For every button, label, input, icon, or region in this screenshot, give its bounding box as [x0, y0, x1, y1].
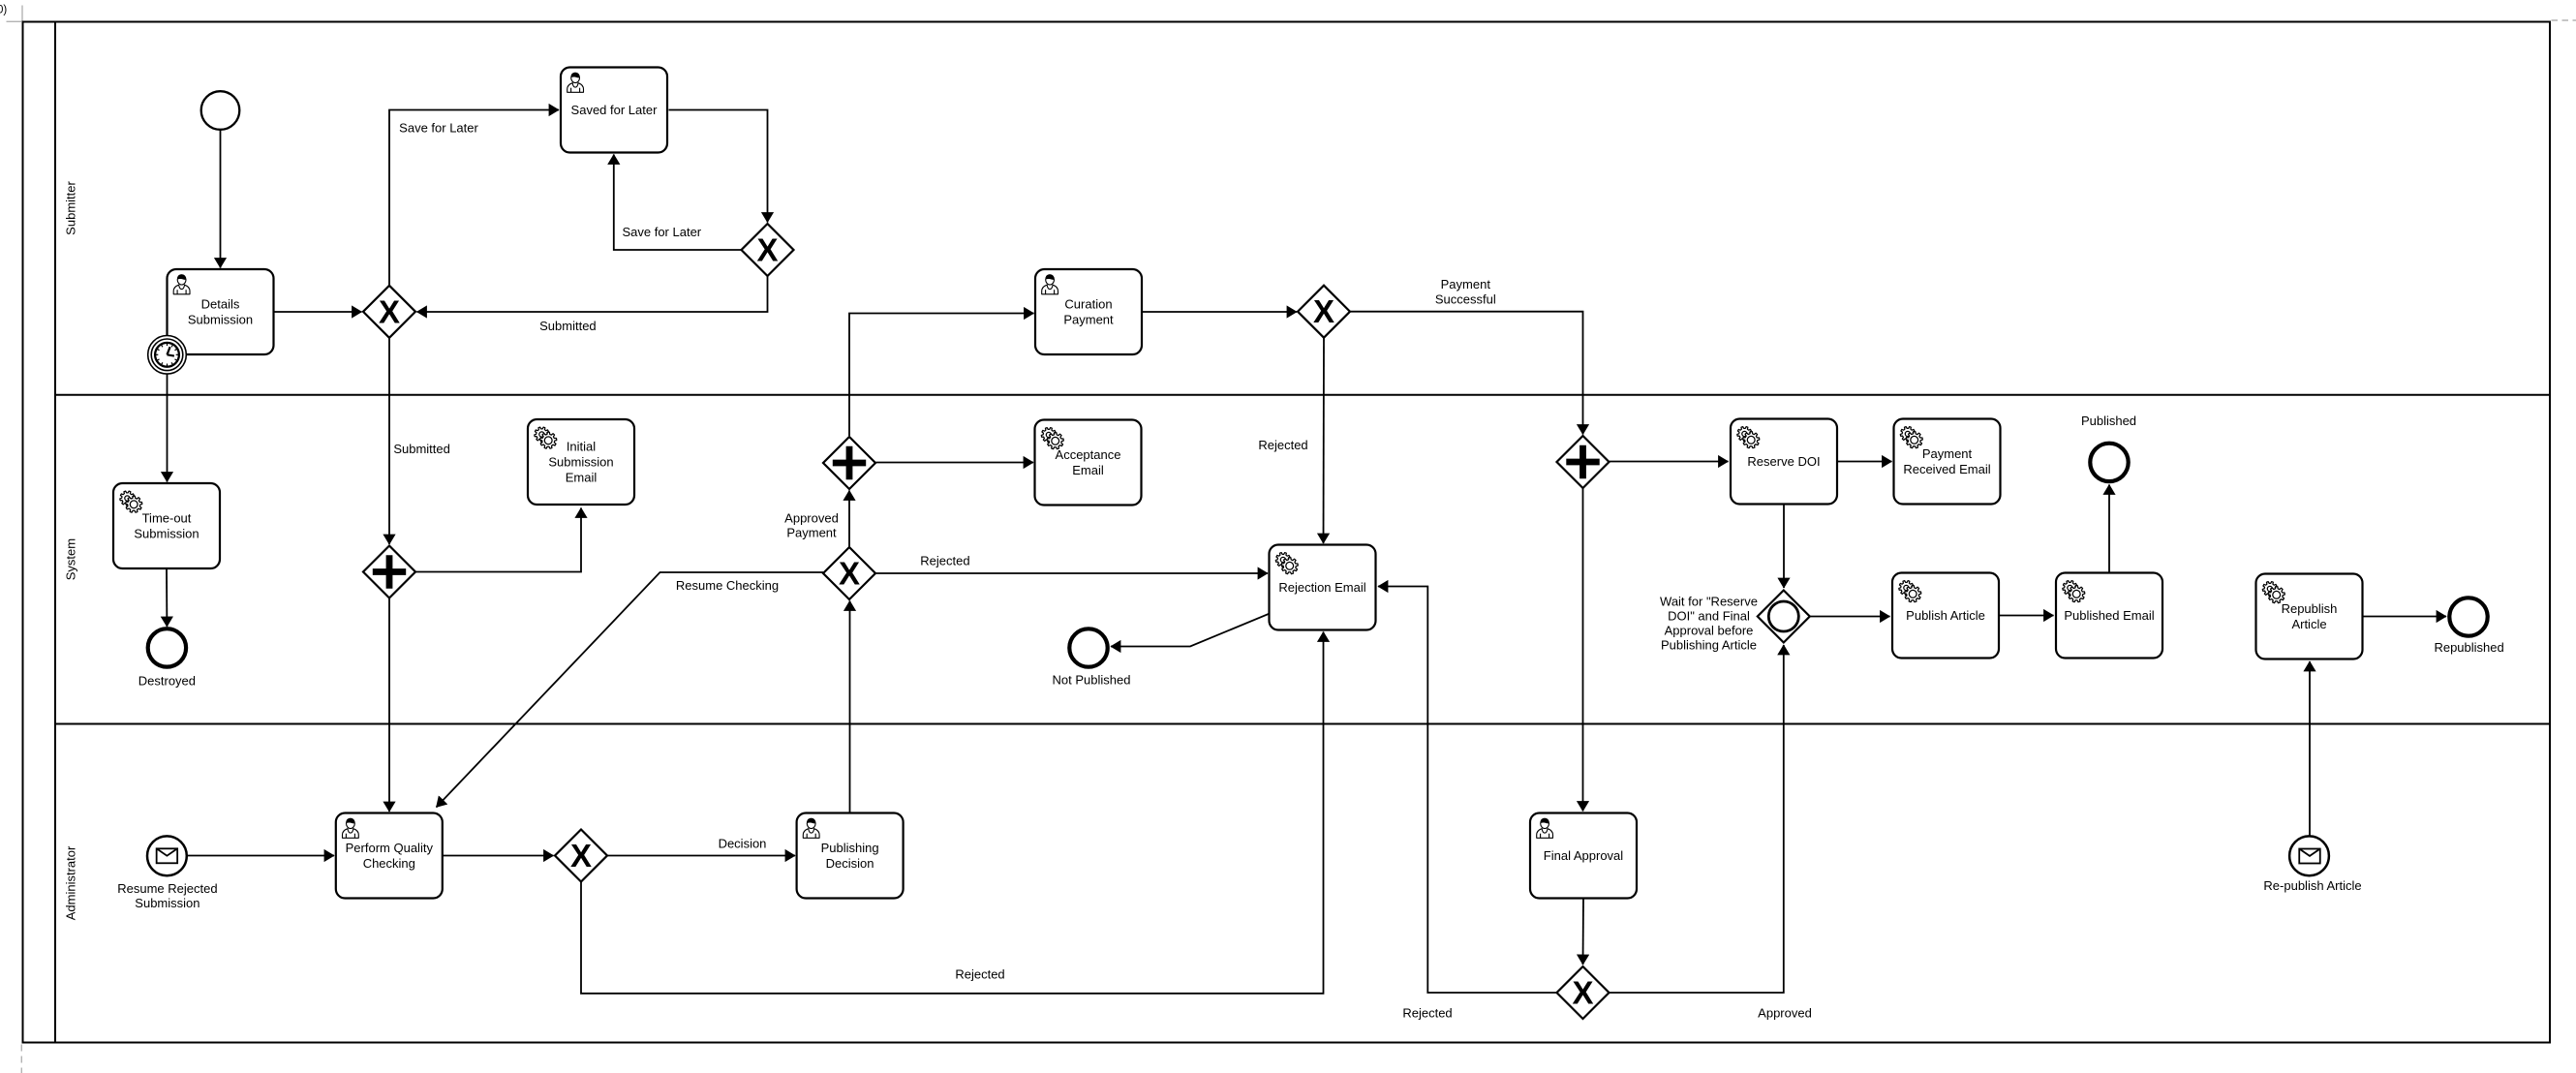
svg-text:Time-out: Time-out: [142, 511, 192, 526]
svg-text:Received Email: Received Email: [1903, 462, 1990, 476]
svg-text:Payment: Payment: [1063, 313, 1114, 327]
svg-text:Reserve DOI: Reserve DOI: [1747, 454, 1820, 469]
svg-text:Initial: Initial: [567, 440, 596, 454]
svg-text:Payment: Payment: [786, 526, 837, 540]
svg-text:Submission: Submission: [134, 527, 199, 541]
svg-text:Publishing Article: Publishing Article: [1661, 638, 1757, 653]
svg-text:Decision: Decision: [826, 856, 874, 871]
svg-text:Republish: Republish: [2282, 601, 2338, 616]
svg-text:Submitted: Submitted: [393, 442, 450, 456]
svg-text:Approved: Approved: [784, 511, 839, 526]
svg-text:Rejected: Rejected: [920, 554, 969, 568]
svg-text:Wait for "Reserve: Wait for "Reserve: [1660, 594, 1758, 608]
svg-text:DOI" and Final: DOI" and Final: [1668, 609, 1750, 624]
svg-text:Article: Article: [2291, 617, 2326, 631]
svg-text:System: System: [64, 538, 78, 580]
svg-text:Rejected: Rejected: [955, 966, 1004, 981]
svg-text:Approved: Approved: [1758, 1006, 1812, 1021]
svg-text:Details: Details: [201, 297, 240, 312]
svg-text:Rejection Email: Rejection Email: [1278, 580, 1365, 595]
svg-text:Curation: Curation: [1064, 297, 1112, 312]
svg-text:Payment: Payment: [1922, 446, 1973, 461]
svg-text:Email: Email: [566, 471, 598, 485]
svg-text:Not Published: Not Published: [1053, 673, 1131, 688]
svg-text:Submitter: Submitter: [64, 181, 78, 235]
svg-text:Submission: Submission: [548, 455, 613, 470]
svg-text:Published Email: Published Email: [2064, 608, 2154, 623]
svg-text:Published: Published: [2081, 414, 2136, 428]
svg-text:Email: Email: [1072, 463, 1104, 477]
svg-text:0): 0): [0, 5, 7, 16]
svg-text:Submitted: Submitted: [539, 319, 597, 333]
svg-text:Re-publish Article: Re-publish Article: [2263, 878, 2361, 893]
svg-text:Perform Quality: Perform Quality: [346, 841, 434, 855]
svg-text:Payment: Payment: [1441, 277, 1491, 291]
svg-text:Destroyed: Destroyed: [138, 674, 196, 689]
svg-text:Saved for Later: Saved for Later: [571, 103, 659, 117]
svg-text:Save for Later: Save for Later: [399, 121, 478, 136]
svg-text:Resume Rejected: Resume Rejected: [117, 881, 217, 896]
svg-text:Checking: Checking: [363, 856, 415, 871]
svg-text:Decision: Decision: [719, 836, 767, 850]
svg-text:Publishing: Publishing: [821, 841, 879, 855]
svg-text:Administrator: Administrator: [64, 845, 78, 920]
svg-text:Submission: Submission: [135, 896, 199, 910]
svg-text:Final Approval: Final Approval: [1544, 848, 1623, 863]
svg-text:Save for Later: Save for Later: [622, 225, 701, 239]
svg-text:Publish Article: Publish Article: [1906, 608, 1985, 623]
svg-text:Submission: Submission: [188, 313, 253, 327]
svg-text:Rejected: Rejected: [1258, 438, 1307, 452]
svg-text:Resume Checking: Resume Checking: [676, 578, 779, 593]
svg-text:Rejected: Rejected: [1402, 1006, 1452, 1021]
svg-text:Republished: Republished: [2434, 640, 2503, 655]
svg-text:Acceptance: Acceptance: [1056, 447, 1121, 462]
svg-text:Successful: Successful: [1435, 291, 1496, 306]
svg-text:Approval before: Approval before: [1665, 624, 1754, 638]
